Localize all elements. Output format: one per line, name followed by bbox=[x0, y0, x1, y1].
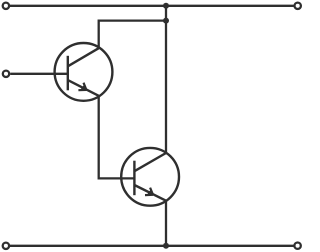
terminal top-right bbox=[295, 3, 301, 9]
Q2 collector stroke bbox=[134, 153, 166, 171]
Q2 emitter stroke bbox=[134, 185, 166, 201]
Q2 envelope circle bbox=[121, 148, 179, 206]
Q1 base bar bbox=[67, 56, 69, 91]
Q2 emitter arrow bbox=[145, 188, 153, 196]
wire collector bus vertical bbox=[165, 6, 167, 153]
wire top rail bbox=[10, 5, 294, 7]
Q1 collector stroke bbox=[68, 48, 99, 66]
Q2 base bar bbox=[133, 161, 135, 196]
wire Q1 emitter to Q2 base bbox=[99, 96, 135, 179]
wire Q2 emitter down bbox=[165, 201, 167, 246]
transistor Q1 (NPN) bbox=[55, 43, 113, 101]
transistor Q2 (NPN) bbox=[121, 148, 179, 206]
terminal bottom-left bbox=[3, 243, 9, 249]
Q1 envelope circle bbox=[55, 43, 113, 101]
terminal bottom-right bbox=[294, 243, 300, 249]
terminal base input bbox=[3, 71, 9, 77]
wire bottom rail bbox=[10, 245, 294, 247]
wire Q1 base input bbox=[10, 73, 68, 75]
junction top rail bbox=[163, 3, 169, 9]
terminal top-left bbox=[3, 3, 9, 9]
wire Q1 collector to bus bbox=[99, 21, 166, 49]
junction collector bus bbox=[163, 18, 169, 24]
junction bottom rail bbox=[163, 243, 169, 249]
Q1 emitter stroke bbox=[68, 80, 99, 96]
Q1 emitter arrow bbox=[78, 83, 86, 91]
